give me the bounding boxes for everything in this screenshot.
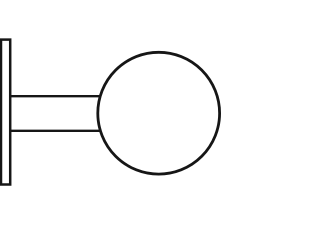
- stem bottom line: [10, 130, 104, 132]
- stem top line: [10, 95, 104, 97]
- knob circle: [98, 52, 220, 174]
- mounting plate: [1, 40, 10, 185]
